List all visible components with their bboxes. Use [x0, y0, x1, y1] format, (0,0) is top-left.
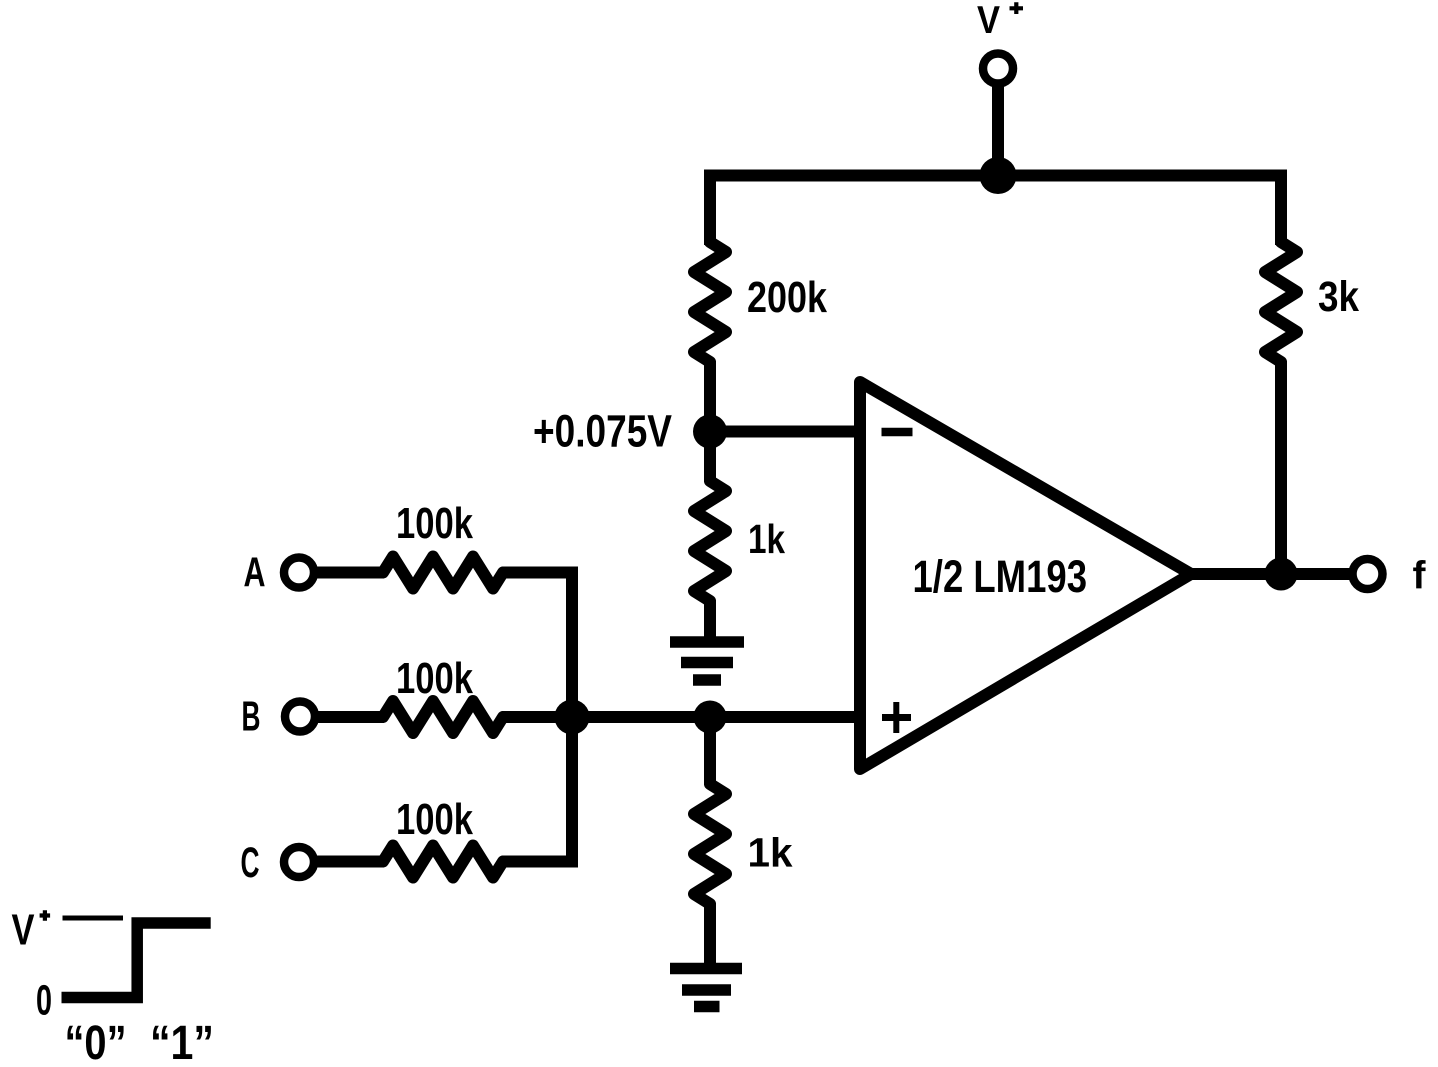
- wire top rail V+: [710, 176, 1281, 246]
- resistor 3k: [1265, 238, 1297, 366]
- svg-text:100k: 100k: [396, 796, 474, 844]
- terminal A: [284, 558, 314, 588]
- svg-text:B: B: [242, 693, 261, 740]
- label V+ top plus: [1010, 2, 1024, 14]
- wire C to resistor: [317, 856, 384, 868]
- svg-text:100k: 100k: [396, 655, 474, 703]
- resistor 1k lower: [694, 780, 726, 907]
- terminal V+: [983, 54, 1013, 84]
- wire A to resistor: [317, 567, 384, 579]
- resistor 100k A: [379, 557, 507, 589]
- wire V+ stub: [992, 84, 1004, 176]
- wire node to inverting input: [710, 426, 862, 438]
- svg-text:“0”: “0”: [65, 1017, 127, 1067]
- junction output node: [1265, 558, 1298, 591]
- svg-text:V: V: [977, 0, 1000, 42]
- junction bus B row: [555, 700, 590, 735]
- svg-text:1k: 1k: [748, 830, 793, 876]
- waveform step: [62, 923, 211, 998]
- wire 1k lower to ground: [704, 903, 716, 969]
- wire 100k A to bus: [502, 567, 572, 579]
- svg-text:V: V: [12, 906, 36, 955]
- resistor 100k C: [379, 846, 507, 878]
- wire 3k to output node: [1275, 361, 1287, 574]
- svg-text:+0.075V: +0.075V: [533, 406, 672, 457]
- svg-text:C: C: [241, 839, 260, 887]
- op-amp U1 1/2 LM193: [860, 382, 1191, 769]
- node +0.075V junction: [693, 415, 727, 449]
- wire input bus vertical: [566, 567, 578, 862]
- resistor 1k upper: [694, 477, 726, 605]
- svg-text:1k: 1k: [748, 516, 785, 562]
- junction V+ rail: [980, 157, 1017, 194]
- terminal C: [284, 847, 314, 877]
- terminal f: [1353, 559, 1383, 589]
- op-amp minus sign: [882, 428, 913, 437]
- svg-text:100k: 100k: [396, 500, 474, 548]
- junction noninverting node: [694, 701, 727, 734]
- wire 100k C to bus: [502, 856, 578, 868]
- label V+ waveform plus: [40, 910, 51, 920]
- wire output: [1192, 568, 1352, 580]
- ground lower: [670, 969, 742, 1007]
- svg-text:3k: 3k: [1318, 273, 1359, 321]
- wire node down to 1k lower: [704, 717, 716, 785]
- svg-text:A: A: [244, 549, 266, 596]
- wire 1k to ground: [704, 600, 716, 642]
- waveform V+ level line: [63, 916, 124, 921]
- wire 200k to node: [704, 361, 716, 432]
- op-amp plus sign: [882, 702, 911, 733]
- wire B row to noninverting input: [502, 711, 862, 723]
- ground upper: [670, 642, 744, 680]
- terminal B: [285, 702, 315, 732]
- svg-text:0: 0: [36, 978, 52, 1025]
- wire node down to 1k: [704, 432, 716, 483]
- svg-text:1/2 LM193: 1/2 LM193: [913, 551, 1088, 602]
- wire B to resistor: [318, 711, 384, 723]
- svg-text:200k: 200k: [747, 274, 828, 322]
- resistor 200k: [694, 238, 726, 366]
- svg-text:“1”: “1”: [150, 1017, 214, 1067]
- resistor 100k B: [379, 701, 507, 733]
- svg-text:f: f: [1413, 555, 1427, 598]
